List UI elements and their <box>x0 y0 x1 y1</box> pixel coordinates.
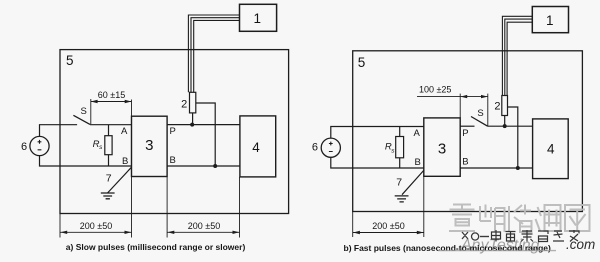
svg-text:S: S <box>477 108 483 119</box>
resistor Rs stub top (right) <box>399 127 401 137</box>
source 6 polarity marks (right) <box>329 142 333 152</box>
probe tip stub wire (left) <box>192 113 194 125</box>
svg-text:2: 2 <box>181 99 187 111</box>
svg-text:200 ±50: 200 ±50 <box>372 221 404 231</box>
dimension 200 ±50 (right) <box>353 176 424 237</box>
wire: B from box3 to box4 (left) <box>167 165 240 167</box>
svg-text:A: A <box>413 128 420 139</box>
box 4 (right) <box>533 119 569 179</box>
svg-text:5: 5 <box>358 55 366 70</box>
svg-text:100 ±25: 100 ±25 <box>419 85 451 95</box>
svg-text:1: 1 <box>254 11 262 26</box>
enclosure box 5 (right) <box>353 51 583 212</box>
ground connection diagonal (left) <box>108 167 132 193</box>
wire: P stub from box3 (right) <box>460 125 474 127</box>
junction dot on B wire (left) <box>213 164 217 168</box>
ground symbol (left) <box>101 193 115 199</box>
wire: B from box3 to box4 (right) <box>460 167 532 169</box>
resistor Rs (left) <box>105 136 112 155</box>
wire: switch pivot to box 3 (left, A wire) <box>90 124 132 126</box>
junction dot on P wire (left) <box>190 123 194 127</box>
watermark big gray "jiayu testing" pseudo-CJK outlined glyphs <box>449 205 590 233</box>
dimension 100 ±25 (right) <box>417 94 488 127</box>
junction dot on P wire (right) <box>503 124 507 128</box>
probe 2 (left) <box>190 92 196 113</box>
wire: P from box3 to box4 (left) <box>167 124 240 126</box>
svg-text:6: 6 <box>21 141 27 153</box>
watermark dark pseudo-CJK text "dianci jianrong zhijia" <box>492 230 580 242</box>
box 1 (left) <box>240 4 277 31</box>
svg-text:B: B <box>414 157 420 168</box>
watermark dark dash <box>480 236 489 238</box>
resistor Rs (right) <box>396 137 404 158</box>
cable from box 1 to probe (right, 3 parallel lines) <box>502 16 532 95</box>
svg-text:S: S <box>81 106 87 117</box>
ground connection diagonal (right) <box>402 170 424 195</box>
switch S blade (left) <box>73 115 90 124</box>
svg-text:6: 6 <box>312 141 318 153</box>
wire: source top lead (left) <box>40 125 78 137</box>
svg-text:5: 5 <box>66 53 74 68</box>
svg-text:AnyTesting: AnyTesting <box>460 237 540 254</box>
source 6 polarity marks (left) <box>38 140 42 150</box>
source 6 circle (left) <box>30 136 49 155</box>
svg-text:P: P <box>462 128 468 139</box>
svg-text:7: 7 <box>396 176 402 188</box>
probe loop wire to B (left) <box>196 103 215 166</box>
ground symbol (right) <box>395 196 409 202</box>
box 3 (left) <box>132 116 168 176</box>
watermark gray underline swoosh <box>438 250 556 252</box>
svg-text:3: 3 <box>438 140 446 157</box>
watermark dark marks x and o <box>462 232 479 240</box>
probe tip stub wire (right) <box>504 116 506 127</box>
svg-text:60 ±15: 60 ±15 <box>98 90 125 100</box>
wire: source bottom lead + B wire to box 3 (right) <box>331 157 424 168</box>
svg-text:B: B <box>122 156 128 167</box>
svg-text:4: 4 <box>252 140 260 155</box>
svg-text:2: 2 <box>494 101 500 113</box>
cable from box 1 to probe (left, 3 parallel lines) <box>188 15 239 92</box>
wire: source top lead to box 3 (right, A wire) <box>331 127 424 139</box>
dimension 200 ±50 first (left) <box>60 177 132 238</box>
resistor Rs stub top (left) <box>108 125 110 136</box>
junction dot on B wire (right) <box>516 166 520 170</box>
svg-text:.com: .com <box>566 237 595 252</box>
svg-text:7: 7 <box>106 173 112 185</box>
wire: switch pivot to box 4 (right) <box>488 125 533 127</box>
svg-text:B: B <box>462 156 468 167</box>
svg-text:4: 4 <box>547 142 555 157</box>
svg-text:P: P <box>170 126 176 137</box>
svg-text:a) Slow pulses (millisecond ra: a) Slow pulses (millisecond range or slo… <box>66 242 246 252</box>
resistor Rs stub bottom (right) <box>399 158 401 168</box>
box 3 (right) <box>424 118 460 176</box>
dimension 60 ±15 (left) <box>91 99 132 124</box>
probe loop wire to B (right) <box>508 107 518 168</box>
source 6 circle (right) <box>321 138 340 157</box>
probe 2 (right) <box>502 96 508 116</box>
svg-text:1: 1 <box>546 13 554 28</box>
svg-text:B: B <box>170 155 176 166</box>
dimension 200 ±50 second (left) <box>167 177 239 238</box>
wire: source bottom lead + B wire to box 3 (left) <box>40 156 132 166</box>
svg-text:200 ±50: 200 ±50 <box>80 221 112 231</box>
switch S blade (right) <box>471 117 488 127</box>
box 1 (right) <box>532 7 568 33</box>
svg-text:3: 3 <box>145 137 153 154</box>
enclosure box 5 (left) <box>60 50 289 214</box>
box 4 (left) <box>240 116 276 177</box>
svg-text:A: A <box>121 126 128 137</box>
resistor Rs stub bottom (left) <box>108 155 110 166</box>
svg-text:200 ±50: 200 ±50 <box>188 221 220 231</box>
